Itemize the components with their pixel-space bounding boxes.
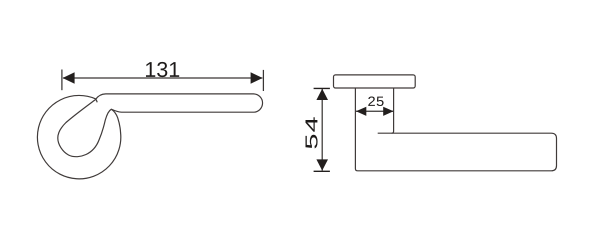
dimension 131: dimension line (63, 77, 262, 79)
dimension 25: dimension line (356, 110, 394, 112)
lever profile (neck left + grip bar outline) (355, 88, 556, 171)
lever body (bar + neck + curl) (58, 94, 263, 157)
dimension 131: label (146, 62, 179, 77)
dimension 54: label (rotated) (305, 117, 317, 148)
dimension 131: left arrowhead (63, 72, 75, 83)
dimension 54: dimension line (321, 89, 323, 171)
dimension 131: right arrowhead (251, 72, 263, 83)
dimension 131: right extension line (262, 70, 264, 91)
dimension 25: right arrowhead (383, 107, 393, 116)
dimension 54: top extension tick (314, 87, 330, 89)
rose plate (side) (334, 75, 416, 88)
dimension 25: left arrowhead (356, 107, 366, 116)
dimension 131: left extension line (61, 70, 63, 91)
rose circle (outer scroll arc with crossing tail at top and spiral flare at the bump) (37, 95, 120, 178)
dimension 54: top arrowhead (316, 89, 328, 100)
dimension 54: bottom arrowhead (316, 159, 328, 170)
dimension 25: label (368, 96, 383, 106)
dimension 54: bottom extension tick (314, 170, 330, 172)
lever profile: neck right edge (392, 88, 394, 133)
